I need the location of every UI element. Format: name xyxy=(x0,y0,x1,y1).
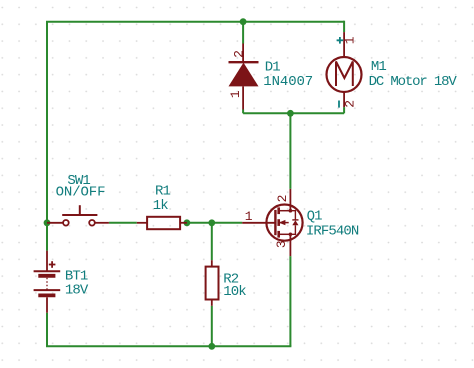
svg-text:2: 2 xyxy=(342,100,357,108)
wire battery minus to bottom rail xyxy=(46,313,48,346)
pin name - of M1 xyxy=(338,101,340,108)
svg-text:2: 2 xyxy=(231,50,246,58)
junction R1 pin2 xyxy=(184,219,191,226)
junction drain on mid rail xyxy=(287,110,294,117)
svg-text:1k: 1k xyxy=(153,198,169,214)
svg-text:10k: 10k xyxy=(223,284,246,300)
motor M1 xyxy=(327,32,362,107)
junction R2 bottom on bottom rail xyxy=(208,343,215,350)
wire bottom horizontal xyxy=(46,345,291,347)
svg-text:M1: M1 xyxy=(371,59,387,75)
svg-text:3: 3 xyxy=(274,240,289,248)
wire mid horizontal diode-motor xyxy=(243,112,344,114)
wire R2 top stub xyxy=(211,223,213,260)
wire motor pin1 stub xyxy=(343,21,345,32)
junction diode cathode on top rail xyxy=(240,18,247,25)
svg-text:1N4007: 1N4007 xyxy=(263,74,313,90)
mosfet Q1 xyxy=(242,189,302,256)
svg-text:1: 1 xyxy=(343,36,358,44)
pin name + of M1 xyxy=(337,37,344,44)
resistor R1 xyxy=(137,217,187,229)
svg-text:IRF540N: IRF540N xyxy=(306,224,359,240)
diode D1 xyxy=(229,44,259,110)
wire source vertical xyxy=(289,256,291,346)
svg-text:2: 2 xyxy=(275,195,290,203)
junction at switch pin1 / left rail xyxy=(44,219,51,226)
svg-text:ON/OFF: ON/OFF xyxy=(56,185,106,201)
wire top horizontal xyxy=(46,21,344,23)
svg-text:Q1: Q1 xyxy=(307,209,323,225)
wire R2 bottom stub xyxy=(211,306,213,347)
svg-text:D1: D1 xyxy=(265,59,281,75)
resistor R2 xyxy=(206,260,219,306)
switch SW1 xyxy=(47,205,109,225)
wire diode cathode stub xyxy=(242,22,244,44)
wire motor pin2 stub xyxy=(343,107,345,113)
svg-text:1: 1 xyxy=(228,90,243,98)
wire diode anode to bottom xyxy=(242,110,244,114)
wire switch row: switch to R1 xyxy=(109,222,137,224)
svg-text:DC Motor 18V: DC Motor 18V xyxy=(369,74,458,90)
junction R2 top tap xyxy=(208,219,215,226)
wire drain vertical xyxy=(289,113,291,189)
wire R1 to gate xyxy=(187,222,242,224)
svg-text:1: 1 xyxy=(245,209,253,224)
svg-text:18V: 18V xyxy=(65,283,89,299)
battery BT1 xyxy=(34,251,61,313)
wire left rail: top corner down to battery plus xyxy=(46,22,48,251)
svg-text:R1: R1 xyxy=(155,184,171,200)
